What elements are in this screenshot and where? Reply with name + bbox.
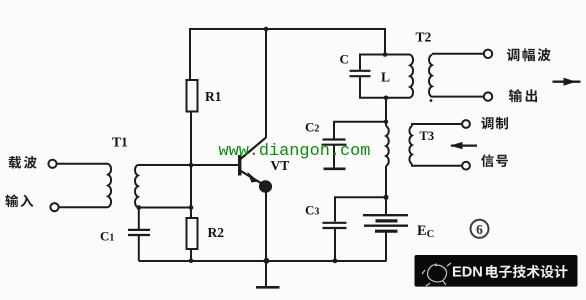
resistor R1 [187, 80, 198, 112]
capacitor C [350, 71, 371, 76]
wire C2 bottom stem [333, 145, 335, 168]
modulation terminal top [462, 120, 470, 128]
modulation terminal bottom [462, 162, 470, 170]
svg-text:EDN: EDN [452, 265, 483, 281]
node C3 rail dot [333, 258, 338, 263]
node ground rail dot [264, 258, 270, 264]
transformer T1 primary winding [108, 164, 111, 207]
wire emitter to bottom rail [265, 186, 267, 261]
wire R2 bottom [190, 249, 192, 261]
transformer T2 secondary winding [429, 55, 432, 98]
arrow modulation direction [450, 142, 477, 149]
wire base node to R2 [190, 165, 192, 218]
node tank bottom dot [384, 96, 389, 101]
wire battery bottom stem [385, 232, 387, 261]
wire C1 bottom stem [138, 235, 140, 261]
label R2 [208, 225, 225, 240]
figure number 6 [471, 220, 489, 238]
label C1 [100, 229, 114, 244]
label T2 [416, 30, 432, 45]
svg-text:www: www [219, 142, 249, 161]
label C2 [305, 120, 319, 135]
wire C3 to battery node [335, 197, 386, 221]
wire T1 secondary top to base node [138, 164, 240, 166]
label 输入 (input) [5, 194, 33, 207]
inductor L / T2 primary winding [410, 55, 413, 98]
ground bar C2 [324, 168, 346, 171]
battery Ec [363, 215, 408, 231]
wire C2 to supply node [334, 122, 386, 139]
svg-text:.: . [249, 142, 259, 161]
wire tank top [360, 55, 410, 71]
svg-text:6: 6 [476, 222, 483, 237]
wire T2 secondary bottom to output [432, 96, 484, 98]
resistor R2 [187, 218, 198, 249]
svg-text:R1: R1 [205, 89, 222, 104]
capacitor C3 [323, 223, 347, 228]
input terminal bottom [50, 203, 58, 211]
output terminal top [484, 50, 492, 58]
transistor VT [240, 137, 267, 184]
label Ec [417, 223, 434, 240]
svg-text:T2: T2 [416, 30, 432, 45]
svg-text:T3: T3 [420, 129, 435, 143]
node base junction dot [189, 163, 194, 168]
node battery top junction dot [384, 195, 389, 200]
capacitor C2 [322, 140, 347, 145]
wire bottom rail [139, 260, 387, 262]
node T1 bottom junction dot [137, 205, 142, 210]
label L [381, 70, 390, 85]
svg-text:C: C [340, 52, 349, 67]
wire T1 secondary bottom to R2 column [139, 207, 191, 209]
transformer T1 secondary winding [135, 165, 138, 208]
label VT [271, 158, 290, 173]
wire R1 bottom to base node [190, 112, 192, 166]
label R1 [205, 89, 222, 104]
node tank top dot [383, 52, 388, 57]
arrow output direction [553, 78, 581, 86]
node R2 mid junction dot [189, 205, 194, 210]
label T3 [420, 129, 435, 143]
capacitor C1 [128, 230, 150, 235]
svg-text:R2: R2 [208, 225, 225, 240]
label 输出 (output) [509, 89, 537, 102]
T2 polarity dot [430, 99, 433, 102]
svg-text:diangon.com: diangon.com [259, 142, 371, 161]
node emitter blob [259, 180, 272, 192]
label 载波 (carrier) [9, 156, 37, 169]
wire input bottom [59, 206, 108, 208]
svg-text:L: L [381, 70, 390, 85]
input terminal top [48, 160, 56, 168]
label C (tank capacitor) [340, 52, 349, 67]
transformer T3 secondary winding [409, 124, 462, 166]
watermark www.diangon.com [219, 142, 371, 161]
wire input top [57, 163, 108, 165]
node R2 bottom rail dot [189, 259, 194, 264]
EDN watermark bar [415, 255, 578, 287]
wire collector vertical [265, 29, 267, 138]
node top rail collector junction dot [264, 27, 269, 32]
wire top rail [190, 29, 385, 80]
transformer T1 label [112, 135, 128, 150]
label C3 [305, 203, 319, 218]
label 调幅波 (AM wave) [507, 48, 551, 61]
transformer T3 primary winding [386, 98, 389, 198]
output terminal bottom [484, 92, 492, 100]
wire C3 bottom stem [334, 228, 336, 261]
node C2 supply junction dot [384, 120, 388, 124]
label 信号 (signal) [481, 154, 508, 167]
wire T2 secondary top to output [432, 53, 484, 55]
wire battery top stem [385, 197, 387, 215]
wire C1 top stem [138, 208, 140, 230]
label 调制 (modulation) [481, 117, 508, 130]
ground [256, 261, 280, 288]
wire tank left bottom [360, 76, 410, 98]
svg-text:T1: T1 [112, 135, 128, 150]
